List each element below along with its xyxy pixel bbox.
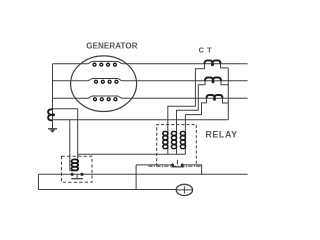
relay contact bridge bar [171,166,183,168]
CT2 left lead wire to relay coil 2 [177,81,206,131]
earth relay coil loops [71,159,78,170]
relay coil 1 [167,130,169,154]
svg-text:C T: C T [199,45,213,54]
neutral CT winding arcs [48,109,52,120]
earth relay case dashed box [62,156,93,182]
earth relay contact bridge bar [71,178,83,180]
relay contact stem [176,160,178,165]
earth relay contact right dot [80,173,83,176]
relay case dashed box [157,125,197,167]
relay contact output wire with step [182,165,201,174]
svg-text:RELAY: RELAY [205,130,237,140]
CT3 left lead wire to relay coil 3 [185,98,206,130]
CT common return vertical wire [227,68,229,120]
relay coil common bus wire [78,153,186,155]
neutral CT secondary bottom lead / common return wire [53,119,229,121]
relay contact right dot [181,164,184,167]
relay case bottom dash-dot boundary [149,165,202,167]
neutral CT secondary top lead wire [53,108,78,110]
neutral CT polarity dot [52,113,55,116]
svg-text:GENERATOR: GENERATOR [86,42,137,51]
trip circuit long wire [38,173,247,175]
CT1 right lead wire [221,64,229,68]
phase line C (bottom) with winding hump [53,96,248,98]
CT1 winding arcs [205,60,221,63]
trip circuit left vertical wire [37,174,39,189]
wire: earth coil bottom connector [70,170,78,172]
earth relay contact stem [76,175,78,179]
CT2 right lead wire [221,81,228,85]
CT1 left lead wire to relay coil 1 [168,64,205,131]
battery supply bottom wire [38,189,176,191]
generator winding C loops [94,98,117,101]
CT1 polarity dot [211,63,214,66]
CT3 right lead wire [223,98,229,103]
CT2 winding arcs [205,78,221,81]
trip branch vertical wire [135,165,137,190]
relay contact feed wire [136,164,173,166]
battery plus sign [176,186,192,193]
generator winding A loops [93,63,116,66]
CT3 winding arcs [207,95,223,98]
phase line B (middle) with winding hump [53,79,248,81]
relay coil 3 [184,130,186,154]
ground symbol [48,128,57,130]
battery positive terminal circle [176,184,192,195]
wire: earth relay coil feed (vertical from top lead) [77,109,79,171]
generator stator circle [71,56,137,112]
generator winding B loops [95,80,118,83]
earth relay contact left dot [71,173,74,176]
phase line A (top) with winding hump [53,61,248,63]
relay coil 2 [176,130,178,154]
relay contact left dot [171,164,174,167]
neutral bus wire (star point down to earth) [52,64,54,130]
wire: earth relay left vertical [69,120,71,171]
CT2 polarity dot [212,80,215,83]
CT3 polarity dot [213,98,216,101]
